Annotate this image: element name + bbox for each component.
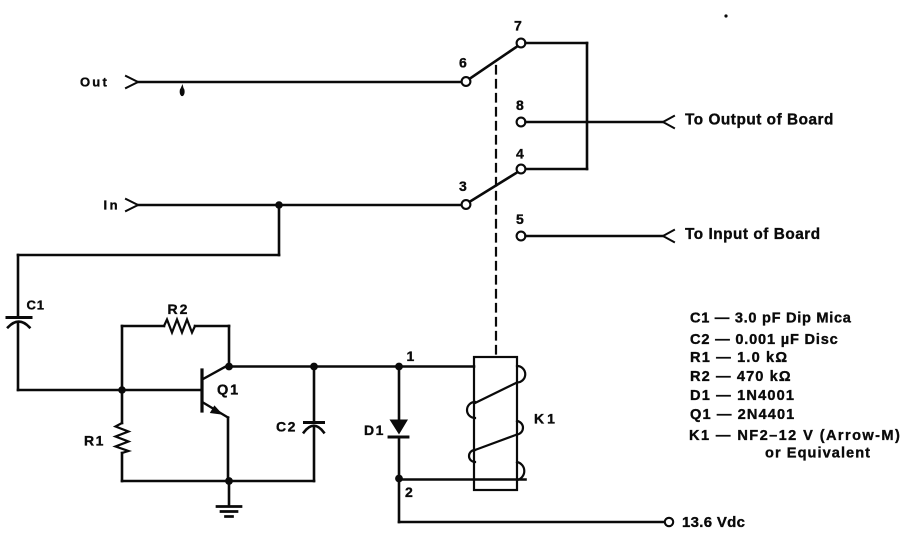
- svg-text:or Equivalent: or Equivalent: [765, 446, 871, 462]
- svg-text:C1 — 3.0 pF Dip Mica: C1 — 3.0 pF Dip Mica: [690, 311, 852, 327]
- resistor R1: [116, 423, 129, 453]
- wire pin7 to vertical bus: [526, 42, 588, 45]
- pin 8 terminal: [517, 118, 526, 127]
- capacitor C1: [7, 318, 31, 328]
- svg-text:D1: D1: [364, 422, 385, 438]
- wire R2 branch up: [121, 326, 124, 390]
- diode D1: [389, 367, 408, 479]
- svg-text:C2: C2: [276, 419, 297, 435]
- parts list: [689, 311, 901, 462]
- svg-text:R1: R1: [84, 433, 105, 449]
- switch arm pin3 to pin4: [470, 173, 517, 202]
- wire base line to Q1: [18, 389, 201, 392]
- junction C2 top: [310, 363, 318, 371]
- resistor R2: [164, 320, 195, 333]
- speck artifact top right: [724, 14, 727, 17]
- svg-text:3: 3: [459, 178, 467, 194]
- wire collector rail to relay: [229, 365, 474, 368]
- pin 6 terminal: [462, 77, 471, 86]
- wire down to C1: [17, 255, 20, 316]
- junction pin 1 node: [395, 363, 403, 371]
- svg-text:R1 — 1.0 kΩ: R1 — 1.0 kΩ: [690, 350, 788, 366]
- svg-text:C2 — 0.001 µF Disc: C2 — 0.001 µF Disc: [690, 332, 839, 348]
- junction base line / R1 R2: [118, 386, 126, 394]
- transistor Q1: [202, 366, 228, 418]
- node To Output of Board arrow: [663, 116, 674, 128]
- svg-text:In: In: [104, 198, 121, 213]
- capacitor C2: [304, 367, 324, 482]
- svg-text:D1 — 1N4001: D1 — 1N4001: [690, 388, 795, 404]
- wire R1 top: [121, 390, 124, 423]
- svg-text:2: 2: [405, 484, 413, 500]
- dashed mechanical link of relay: [495, 66, 497, 357]
- wire bottom rail: [122, 480, 314, 483]
- wire pin4 to vertical bus: [526, 168, 588, 171]
- svg-text:Q1 — 2N4401: Q1 — 2N4401: [690, 407, 795, 423]
- wire pin5 to input arrow: [526, 235, 664, 238]
- node 13.6 Vdc terminal: [665, 518, 673, 526]
- ink blot artifact under Out wire: [180, 84, 185, 96]
- svg-text:R2: R2: [168, 301, 190, 317]
- svg-text:6: 6: [459, 55, 467, 71]
- relay K1 body: [474, 357, 517, 490]
- svg-text:K1 — NF2–12 V (Arrow-M): K1 — NF2–12 V (Arrow-M): [689, 428, 901, 444]
- wire In junction down: [278, 205, 281, 255]
- wire Out line to pin 6: [138, 81, 461, 84]
- ground: [217, 481, 241, 517]
- svg-text:Q1: Q1: [217, 383, 240, 399]
- wire In line to pin 3: [138, 204, 461, 207]
- wire supply rail: [399, 521, 665, 524]
- pin 5 terminal: [517, 232, 526, 241]
- wire across to C1 branch: [18, 254, 279, 257]
- pin 7 terminal: [517, 39, 526, 48]
- wire pin8 to output arrow: [526, 121, 664, 124]
- svg-text:C1: C1: [27, 298, 45, 313]
- junction emitter / ground: [225, 477, 233, 485]
- pin 3 terminal: [462, 200, 471, 209]
- svg-text:To Input of Board: To Input of Board: [685, 226, 821, 243]
- wire R2 right: [195, 325, 229, 328]
- wire pin2 to relay coil bottom: [399, 478, 526, 481]
- relay K1 coil: [467, 366, 525, 480]
- junction collector node: [225, 363, 233, 371]
- switch arm pin6 to pin7: [470, 47, 517, 79]
- junction on In line: [275, 201, 283, 209]
- svg-text:To Output of Board: To Output of Board: [685, 112, 834, 129]
- pin 4 terminal: [517, 165, 526, 174]
- wire pin2 node down to supply rail: [398, 479, 401, 523]
- svg-text:K1: K1: [534, 411, 558, 427]
- wire emitter down: [227, 418, 230, 482]
- svg-text:4: 4: [516, 146, 524, 162]
- node Out arrow: [126, 76, 138, 88]
- junction pin 2 node: [395, 475, 403, 483]
- svg-text:7: 7: [514, 18, 522, 34]
- wire to R2 left: [122, 325, 164, 328]
- svg-text:13.6 Vdc: 13.6 Vdc: [682, 514, 745, 531]
- wire R1 bottom: [121, 453, 124, 481]
- svg-text:1: 1: [407, 348, 415, 364]
- wire R2 down to collector: [228, 326, 231, 367]
- svg-text:8: 8: [516, 97, 524, 113]
- node In arrow: [126, 199, 138, 211]
- svg-text:5: 5: [516, 211, 524, 227]
- svg-text:Out: Out: [80, 75, 109, 90]
- node To Input of Board arrow: [663, 230, 674, 242]
- svg-text:R2 — 470 kΩ: R2 — 470 kΩ: [690, 369, 792, 385]
- wire C1 down to base line: [17, 324, 20, 391]
- wire vertical bus 7-4: [586, 43, 589, 169]
